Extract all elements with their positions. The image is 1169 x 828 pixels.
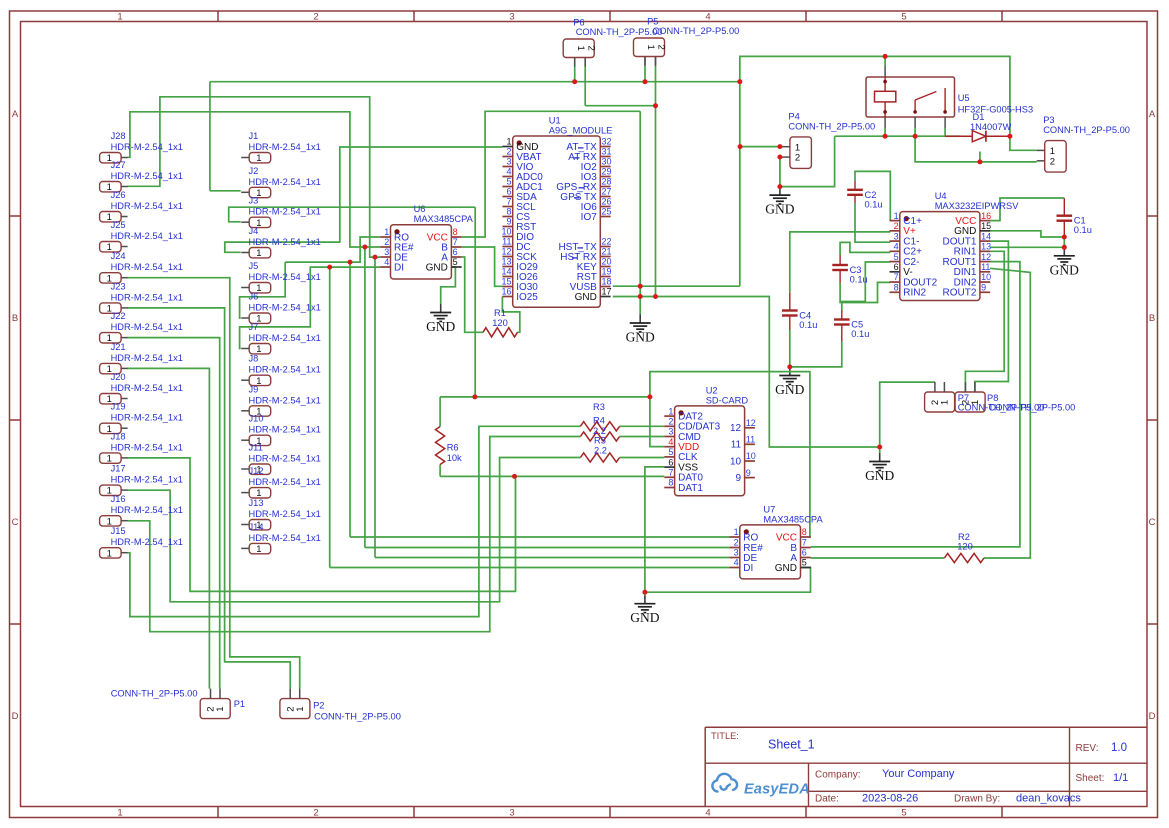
svg-text:17: 17 [602,287,612,297]
svg-text:0.1u: 0.1u [851,329,869,339]
svg-text:2: 2 [506,147,511,157]
svg-text:U1: U1 [549,116,561,126]
svg-text:15: 15 [981,221,991,231]
svg-text:D1: D1 [973,112,985,122]
svg-text:DI: DI [394,262,404,273]
svg-text:1: 1 [384,227,389,237]
svg-text:C: C [12,517,19,528]
svg-text:3: 3 [509,808,514,819]
svg-text:1: 1 [256,544,261,555]
svg-text:B: B [1149,313,1155,324]
svg-text:R6: R6 [447,443,459,453]
svg-text:CONN-TH_2P-P5.00: CONN-TH_2P-P5.00 [653,26,740,36]
svg-text:120: 120 [492,318,508,328]
svg-text:P4: P4 [788,111,799,121]
svg-text:HDR-M-2.54_1x1: HDR-M-2.54_1x1 [111,231,183,241]
svg-text:DAT1: DAT1 [678,483,703,494]
svg-text:GND: GND [575,292,597,303]
svg-text:HDR-M-2.54_1x1: HDR-M-2.54_1x1 [111,442,183,452]
svg-text:2: 2 [313,808,318,819]
svg-text:5: 5 [894,252,899,262]
svg-text:CONN-TH_2P-P5.00: CONN-TH_2P-P5.00 [989,403,1076,413]
svg-text:J25: J25 [111,220,126,230]
svg-text:J28: J28 [111,131,126,141]
svg-text:U7: U7 [763,504,775,514]
svg-text:29: 29 [602,167,612,177]
svg-text:26: 26 [602,197,612,207]
svg-text:VCC: VCC [776,532,797,543]
svg-text:10: 10 [746,451,756,461]
svg-text:RIN2: RIN2 [903,288,926,299]
svg-text:9: 9 [981,282,986,292]
svg-text:2: 2 [668,417,673,427]
svg-text:J1: J1 [249,131,259,141]
svg-text:7: 7 [802,538,807,548]
svg-text:3: 3 [384,247,389,257]
svg-text:J21: J21 [111,342,126,352]
svg-text:9: 9 [746,468,751,478]
svg-text:4: 4 [668,437,673,447]
svg-text:3: 3 [894,231,899,241]
svg-text:MAX3232EIPWRSV: MAX3232EIPWRSV [935,201,1020,211]
svg-text:5: 5 [668,447,673,457]
svg-text:P3: P3 [1043,115,1054,125]
svg-text:HDR-M-2.54_1x1: HDR-M-2.54_1x1 [111,413,183,423]
svg-text:EasyEDA: EasyEDA [744,782,810,798]
svg-text:10: 10 [501,227,511,237]
svg-text:6: 6 [802,548,807,558]
svg-text:16: 16 [501,287,511,297]
svg-text:0.1u: 0.1u [850,275,868,285]
svg-text:1: 1 [940,400,951,405]
svg-text:J12: J12 [249,466,264,476]
svg-text:11: 11 [502,237,511,247]
svg-text:4: 4 [384,257,389,267]
svg-text:2.2: 2.2 [594,446,607,456]
svg-text:HDR-M-2.54_1x1: HDR-M-2.54_1x1 [249,272,321,282]
svg-text:J24: J24 [111,251,126,261]
svg-text:HDR-M-2.54_1x1: HDR-M-2.54_1x1 [249,207,321,217]
svg-text:HDR-M-2.54_1x1: HDR-M-2.54_1x1 [111,537,183,547]
svg-text:HDR-M-2.54_1x1: HDR-M-2.54_1x1 [249,395,321,405]
svg-text:27: 27 [602,187,612,197]
svg-text:1: 1 [894,211,899,221]
svg-text:GND: GND [426,319,455,334]
svg-text:GND: GND [865,468,894,483]
svg-text:Company:: Company: [815,770,861,781]
svg-text:7: 7 [453,237,458,247]
svg-text:HDR-M-2.54_1x1: HDR-M-2.54_1x1 [111,201,183,211]
svg-text:J6: J6 [249,292,259,302]
svg-text:2: 2 [795,153,800,164]
svg-text:4: 4 [705,808,710,819]
svg-text:5: 5 [506,177,511,187]
svg-text:3: 3 [506,157,511,167]
svg-text:J9: J9 [249,384,259,394]
svg-text:11: 11 [981,262,990,272]
svg-text:10k: 10k [447,453,462,463]
svg-text:HDR-M-2.54_1x1: HDR-M-2.54_1x1 [249,142,321,152]
svg-text:U4: U4 [935,191,947,201]
svg-text:CONN-TH_2P-P5.00: CONN-TH_2P-P5.00 [1043,125,1130,135]
svg-text:HDR-M-2.54_1x1: HDR-M-2.54_1x1 [249,177,321,187]
svg-text:J22: J22 [111,311,126,321]
svg-text:28: 28 [602,177,612,187]
svg-text:Sheet_1: Sheet_1 [768,738,815,752]
svg-text:CONN-TH_2P-P5.00: CONN-TH_2P-P5.00 [788,121,875,131]
svg-text:6: 6 [894,262,899,272]
svg-text:CONN-TH_2P-P5.00: CONN-TH_2P-P5.00 [576,27,663,37]
svg-text:7: 7 [668,468,673,478]
svg-text:IO7: IO7 [581,212,598,223]
svg-text:16: 16 [981,211,991,221]
svg-text:A: A [1149,109,1156,120]
svg-text:J5: J5 [249,261,259,271]
svg-text:J18: J18 [111,431,126,441]
svg-text:5: 5 [802,558,807,568]
svg-text:J26: J26 [111,190,126,200]
svg-text:HDR-M-2.54_1x1: HDR-M-2.54_1x1 [249,477,321,487]
svg-text:J8: J8 [249,354,259,364]
svg-text:HF32F-G005-HS3: HF32F-G005-HS3 [958,105,1033,115]
svg-text:HDR-M-2.54_1x1: HDR-M-2.54_1x1 [111,262,183,272]
svg-text:J15: J15 [111,526,126,536]
svg-text:D: D [12,711,19,722]
svg-text:12: 12 [730,423,742,434]
svg-text:19: 19 [602,267,612,277]
svg-text:CONN-TH_2P-P5.00: CONN-TH_2P-P5.00 [314,712,401,722]
svg-text:HDR-M-2.54_1x1: HDR-M-2.54_1x1 [111,142,183,152]
svg-text:J3: J3 [249,196,259,206]
svg-text:HDR-M-2.54_1x1: HDR-M-2.54_1x1 [249,237,321,247]
svg-text:1: 1 [575,46,586,51]
svg-text:IO25: IO25 [516,292,538,303]
svg-text:A: A [12,109,19,120]
svg-text:31: 31 [602,147,612,157]
svg-text:J13: J13 [249,498,264,508]
svg-text:1: 1 [295,706,306,711]
svg-text:8: 8 [453,227,458,237]
svg-text:HDR-M-2.54_1x1: HDR-M-2.54_1x1 [111,171,183,181]
svg-text:GND: GND [765,202,794,217]
svg-text:3: 3 [668,427,673,437]
svg-text:R4: R4 [593,416,605,426]
svg-text:12: 12 [981,252,991,262]
svg-text:R3: R3 [593,402,605,412]
svg-text:C1: C1 [1074,216,1086,226]
svg-text:R1: R1 [494,308,506,318]
svg-text:6: 6 [506,187,511,197]
svg-text:1: 1 [117,808,122,819]
svg-text:1: 1 [256,248,261,259]
svg-text:HDR-M-2.54_1x1: HDR-M-2.54_1x1 [249,454,321,464]
svg-text:RO: RO [743,532,758,543]
svg-text:HDR-M-2.54_1x1: HDR-M-2.54_1x1 [249,425,321,435]
svg-text:Drawn By:: Drawn By: [954,794,1000,805]
svg-text:J23: J23 [111,281,126,291]
svg-text:1: 1 [117,12,122,23]
svg-text:J14: J14 [249,522,264,532]
svg-text:Date:: Date: [815,794,839,805]
svg-text:DI: DI [743,563,753,574]
svg-text:2: 2 [734,538,739,548]
svg-text:P6: P6 [573,18,584,28]
svg-text:HDR-M-2.54_1x1: HDR-M-2.54_1x1 [111,475,183,485]
svg-text:2: 2 [585,46,596,51]
svg-text:11: 11 [731,440,742,451]
svg-text:4: 4 [506,167,511,177]
svg-text:Your Company: Your Company [882,768,955,780]
svg-text:REV:: REV: [1076,743,1099,754]
svg-text:J2: J2 [249,166,259,176]
svg-text:R2: R2 [958,532,970,542]
svg-text:8: 8 [802,527,807,537]
svg-text:GND: GND [1050,262,1079,277]
svg-text:3: 3 [509,12,514,23]
svg-text:J20: J20 [111,372,126,382]
svg-text:1: 1 [645,45,656,50]
svg-text:HDR-M-2.54_1x1: HDR-M-2.54_1x1 [249,365,321,375]
svg-text:13: 13 [981,242,991,252]
svg-text:6: 6 [453,247,458,257]
svg-text:21: 21 [602,247,612,257]
svg-text:J11: J11 [249,443,263,453]
svg-text:1: 1 [734,527,739,537]
svg-text:HDR-M-2.54_1x1: HDR-M-2.54_1x1 [249,533,321,543]
svg-text:TITLE:: TITLE: [711,731,739,741]
svg-text:0.1u: 0.1u [799,320,817,330]
svg-text:C: C [1149,517,1156,528]
svg-text:8: 8 [506,207,511,217]
svg-text:J17: J17 [111,464,126,474]
svg-text:2: 2 [894,221,899,231]
svg-text:J19: J19 [111,402,126,412]
svg-text:GND: GND [426,262,448,273]
svg-text:C5: C5 [851,320,863,330]
svg-text:9: 9 [506,217,511,227]
svg-text:J7: J7 [249,322,259,332]
svg-text:P2: P2 [313,701,324,711]
svg-text:2: 2 [656,45,667,50]
svg-text:P1: P1 [234,699,245,709]
svg-text:12: 12 [746,418,756,428]
svg-text:1: 1 [107,548,112,559]
svg-text:2: 2 [384,237,389,247]
svg-text:HDR-M-2.54_1x1: HDR-M-2.54_1x1 [111,292,183,302]
svg-text:10: 10 [730,456,742,467]
svg-text:U6: U6 [414,204,426,214]
svg-text:7: 7 [894,272,899,282]
svg-text:HDR-M-2.54_1x1: HDR-M-2.54_1x1 [111,353,183,363]
svg-text:14: 14 [981,231,991,241]
svg-text:30: 30 [602,157,612,167]
svg-text:22: 22 [602,237,612,247]
svg-text:1: 1 [970,400,981,405]
svg-text:HDR-M-2.54_1x1: HDR-M-2.54_1x1 [111,505,183,515]
svg-text:dean_kovacs: dean_kovacs [1016,793,1081,805]
svg-text:R5: R5 [594,436,606,446]
svg-text:HDR-M-2.54_1x1: HDR-M-2.54_1x1 [111,383,183,393]
svg-text:C3: C3 [850,265,862,275]
svg-text:MAX3485CPA: MAX3485CPA [763,514,823,524]
svg-text:2.2: 2.2 [593,426,606,436]
svg-text:8: 8 [668,478,673,488]
svg-text:P5: P5 [647,17,658,27]
svg-text:J4: J4 [249,226,259,236]
svg-text:1: 1 [668,406,673,416]
svg-text:U2: U2 [706,385,718,395]
svg-text:HDR-M-2.54_1x1: HDR-M-2.54_1x1 [249,509,321,519]
svg-text:6: 6 [668,457,673,467]
svg-text:1N4007W: 1N4007W [970,122,1012,132]
svg-text:1.0: 1.0 [1111,742,1127,754]
svg-text:8: 8 [894,282,899,292]
svg-text:10: 10 [981,272,991,282]
svg-text:Sheet:: Sheet: [1076,773,1105,784]
svg-text:7: 7 [506,197,511,207]
svg-text:U5: U5 [958,93,970,103]
svg-text:D: D [1149,711,1156,722]
svg-text:CONN-TH_2P-P5.00: CONN-TH_2P-P5.00 [111,689,198,699]
svg-text:1: 1 [256,153,261,164]
svg-text:15: 15 [501,277,511,287]
svg-text:GND: GND [775,382,804,397]
svg-text:5: 5 [901,12,906,23]
svg-text:11: 11 [746,435,755,445]
svg-text:MAX3485CPA: MAX3485CPA [414,214,474,224]
svg-text:120: 120 [957,542,973,552]
svg-text:HDR-M-2.54_1x1: HDR-M-2.54_1x1 [249,333,321,343]
svg-text:1: 1 [215,706,226,711]
svg-text:1: 1 [506,137,511,147]
svg-text:0.1u: 0.1u [1074,225,1092,235]
svg-text:GND: GND [626,330,655,345]
svg-text:HDR-M-2.54_1x1: HDR-M-2.54_1x1 [111,322,183,332]
svg-text:C4: C4 [799,311,811,321]
svg-text:1/1: 1/1 [1113,772,1128,784]
svg-text:A9G_MODULE: A9G_MODULE [549,126,613,136]
svg-text:1: 1 [1050,146,1055,157]
svg-text:4: 4 [894,242,899,252]
svg-text:4: 4 [734,558,739,568]
svg-text:5: 5 [453,257,458,267]
svg-text:12: 12 [501,247,511,257]
svg-text:2: 2 [313,12,318,23]
svg-text:18: 18 [602,277,612,287]
svg-text:3: 3 [734,548,739,558]
svg-text:0.1u: 0.1u [865,199,883,209]
svg-text:HDR-M-2.54_1x1: HDR-M-2.54_1x1 [249,303,321,313]
svg-text:GND: GND [630,610,659,625]
svg-text:2023-08-26: 2023-08-26 [862,793,918,805]
svg-text:SD-CARD: SD-CARD [706,395,749,405]
svg-text:J27: J27 [111,160,126,170]
svg-text:9: 9 [736,473,742,484]
svg-text:20: 20 [602,257,612,267]
svg-text:4: 4 [705,12,710,23]
svg-text:13: 13 [501,257,511,267]
svg-text:J16: J16 [111,494,126,504]
svg-text:B: B [12,313,18,324]
svg-text:14: 14 [501,267,511,277]
svg-text:25: 25 [602,207,612,217]
svg-text:GND: GND [775,563,797,574]
svg-text:2: 2 [1050,156,1055,167]
svg-text:1: 1 [795,142,800,153]
svg-text:C2: C2 [865,190,877,200]
svg-text:32: 32 [602,137,612,147]
svg-text:J10: J10 [249,414,264,424]
svg-text:5: 5 [901,808,906,819]
svg-text:ROUT2: ROUT2 [942,288,976,299]
svg-text:P8: P8 [987,393,998,403]
